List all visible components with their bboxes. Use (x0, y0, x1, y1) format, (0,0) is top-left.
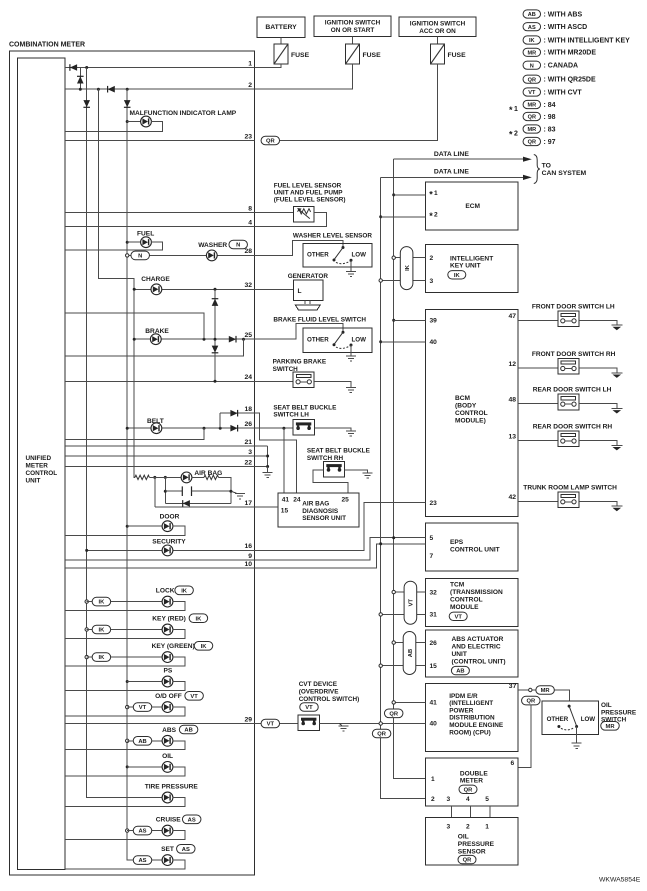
svg-text:N: N (138, 254, 142, 260)
svg-text:IGNITION SWITCH: IGNITION SWITCH (410, 21, 466, 28)
svg-text:AB: AB (456, 669, 464, 675)
generator box (294, 280, 324, 301)
connector circle bus2/IK3 (379, 279, 382, 282)
wire meter pin 21 (65, 445, 268, 447)
brake fluid switch dashed throw (336, 346, 351, 349)
svg-text:48: 48 (509, 396, 517, 403)
svg-text:32: 32 (430, 589, 438, 596)
svg-text:METER: METER (26, 463, 49, 470)
ground CVT device line (339, 726, 349, 731)
option oval QR on line 23 (261, 136, 280, 145)
wire pin 28 to washer sensor (254, 240, 343, 255)
wire meter pin 16 (87, 549, 255, 551)
brace TO CAN SYSTEM (534, 155, 540, 184)
wire bus2 to TCM pin 31 (381, 613, 426, 615)
svg-text:: WITH ABS: : WITH ABS (544, 11, 583, 18)
option oval VT inside TCM (449, 612, 467, 620)
CRUISE indicator lamp (162, 825, 173, 836)
svg-text:IK: IK (98, 600, 105, 606)
wire KEY (RED) return (65, 630, 185, 639)
svg-text:WASHER: WASHER (198, 242, 227, 249)
diode D11 air bag (183, 500, 190, 507)
svg-text:: 97: : 97 (544, 139, 556, 146)
wire ground tap stem (339, 724, 342, 726)
node line24/diodechain (214, 380, 217, 383)
wire pin 26 to seat belt LH (254, 427, 293, 429)
svg-text:REAR DOOR SWITCH LH: REAR DOOR SWITCH LH (533, 387, 612, 394)
svg-text:2: 2 (514, 131, 518, 138)
REAR DOOR SWITCH LH (558, 394, 579, 410)
svg-text:AB: AB (138, 739, 146, 745)
wire bus battery x86.7 (87, 68, 163, 798)
node SECURITY feed (85, 549, 88, 552)
svg-text:1: 1 (248, 60, 252, 67)
svg-text:LOCK: LOCK (156, 588, 175, 595)
option oval VT on O/D OFF feed (133, 703, 152, 712)
svg-text:*: * (509, 105, 513, 115)
wire meter pin 17 (155, 506, 255, 508)
ground for pins 21/3/22 (263, 473, 273, 478)
svg-text:(INTELLIGENT: (INTELLIGENT (449, 700, 493, 707)
svg-text:OTHER: OTHER (307, 337, 329, 344)
svg-text:AB: AB (528, 12, 536, 18)
wire pin25 branch return (65, 339, 244, 356)
wire KEY (RED) feed (87, 629, 163, 631)
svg-text:MR: MR (527, 127, 536, 133)
option oval VT beside O/D OFF label (185, 692, 204, 701)
wire BCM pin 47 to FRONT DOOR SWITCH LH (518, 319, 558, 321)
wire ground stem pins 21-3-22 (267, 467, 269, 473)
seat belt warning lamp (151, 423, 162, 434)
intelligent key unit box (426, 245, 518, 293)
svg-text:QR: QR (526, 699, 536, 705)
wire PS feed (127, 681, 162, 683)
option oval IK on LOCK feed (92, 597, 111, 606)
svg-text:AS: AS (138, 829, 146, 835)
CVT overdrive control switch (298, 715, 319, 731)
svg-text:17: 17 (244, 500, 252, 507)
svg-text:IPDM E/R: IPDM E/R (449, 693, 478, 700)
wire meter pin 10 (65, 567, 254, 569)
ignition switch ACC/ON box (399, 17, 476, 37)
connector circle LOCK feed (85, 600, 88, 603)
svg-text:OIL: OIL (601, 702, 612, 709)
svg-text:*: * (509, 130, 513, 140)
wire O/D OFF return (65, 707, 185, 716)
connector circle bus1/ABS26 (392, 641, 395, 644)
svg-text:PRESSURE: PRESSURE (458, 841, 495, 848)
legend code oval AS row 2 (523, 23, 541, 31)
svg-text:AS: AS (138, 858, 146, 864)
svg-text:IK: IK (98, 655, 105, 661)
svg-text:42: 42 (509, 494, 517, 501)
capacitor C1 (182, 486, 191, 496)
node PS feed (126, 680, 129, 683)
washer switch contact LOW (350, 259, 353, 262)
svg-text:VT: VT (139, 705, 147, 711)
svg-text:DIAGNOSIS: DIAGNOSIS (302, 508, 339, 515)
svg-text:CHARGE: CHARGE (141, 276, 170, 283)
wire ignition ON/START to fuse (352, 37, 354, 45)
svg-text:: 98: : 98 (544, 114, 556, 121)
svg-text:1: 1 (431, 776, 435, 783)
svg-text:25: 25 (342, 497, 350, 504)
ABS actuator box (426, 630, 518, 677)
svg-text:21: 21 (244, 439, 252, 446)
svg-text:24: 24 (293, 497, 301, 504)
svg-text:MR: MR (527, 103, 536, 109)
wire CVT switch to ground tap (319, 723, 380, 725)
svg-text:VT: VT (528, 90, 536, 96)
svg-text:SENSOR UNIT: SENSOR UNIT (302, 515, 346, 522)
ignition switch ON/START box (314, 16, 391, 37)
wire TRUNK ROOM LAMP SWITCH to ground (579, 501, 617, 506)
svg-text:AS: AS (182, 847, 190, 853)
svg-text:2: 2 (466, 824, 470, 831)
svg-text:41: 41 (430, 700, 438, 707)
wire FRONT DOOR SWITCH RH to ground (579, 368, 617, 373)
svg-text:QR: QR (528, 115, 536, 121)
option oval VT above CVT switch (300, 703, 319, 712)
oil pressure switch lever (569, 706, 576, 725)
svg-text:METER: METER (460, 778, 483, 785)
ABS indicator lamp (162, 735, 173, 746)
svg-text:1: 1 (514, 106, 518, 113)
node bus1/ECM 1 (392, 193, 395, 196)
brake fluid switch pivot (342, 331, 345, 334)
option oval IK beside LOCK label (175, 586, 194, 595)
svg-text:15: 15 (430, 663, 438, 670)
svg-text:VT: VT (190, 694, 198, 700)
oil pressure switch box (542, 701, 599, 735)
wire diode chain vertical x215 (214, 289, 216, 381)
oil pressure switch pivot (568, 705, 571, 708)
ground seat belt RH (363, 473, 373, 478)
oil pressure switch contact LOW (575, 725, 578, 728)
svg-text:32: 32 (244, 282, 252, 289)
svg-text:: CANADA: : CANADA (544, 63, 579, 70)
door warning lamp (162, 521, 173, 532)
diode D6 upward (212, 299, 219, 306)
connector circle IPDM37 (529, 688, 532, 691)
svg-text:UNIT: UNIT (26, 478, 41, 485)
fuse F3 (ignition acc) (431, 44, 445, 64)
FRONT DOOR SWITCH RH (558, 359, 579, 375)
svg-text:22: 22 (244, 459, 252, 466)
svg-text:25: 25 (244, 332, 252, 339)
option oval MR under oil pressure switch label (601, 722, 620, 731)
option oval N on line 28 (131, 251, 150, 260)
legend code oval IK row 3 (523, 36, 541, 44)
fuel level sensor (variable resistor) (294, 206, 314, 222)
svg-text:OTHER: OTHER (547, 716, 569, 723)
resistor R2 air bag (204, 475, 218, 479)
svg-text:PS: PS (164, 668, 173, 675)
ground air bag capacitor (235, 494, 245, 499)
wire seat belt RH to airbag pin 25 (313, 470, 348, 493)
wire KEY (GREEN) return (65, 657, 185, 666)
svg-text:FRONT DOOR SWITCH LH: FRONT DOOR SWITCH LH (532, 303, 615, 310)
svg-text:LOW: LOW (352, 337, 367, 344)
washer level sensor box (303, 243, 372, 267)
wire seat belt LH to ground (314, 428, 351, 430)
wire CRUISE feed (127, 830, 162, 832)
wire meter pin 29 (65, 723, 254, 725)
option oval IK inside key unit (448, 271, 466, 279)
ground REAR DOOR SWITCH RH (611, 445, 622, 450)
wire BCM pin 23 to meter pin 16 (254, 503, 425, 551)
connector capsule IK (400, 247, 413, 290)
wire FUEL return (65, 242, 163, 250)
svg-text:FUSE: FUSE (363, 52, 382, 59)
svg-text:3: 3 (248, 449, 252, 456)
wire KEY (GREEN) feed (87, 656, 163, 658)
legend code oval MR row 10 (523, 125, 541, 133)
svg-text:AS: AS (528, 25, 536, 31)
svg-text:TIRE PRESSURE: TIRE PRESSURE (145, 784, 199, 791)
svg-text:QR: QR (389, 711, 399, 717)
wire washer LOW to ground (350, 260, 352, 271)
wire pin 4 to fuel sensor return (254, 213, 326, 227)
svg-text:WKWA5854E: WKWA5854E (599, 877, 641, 884)
svg-text:4: 4 (248, 219, 252, 226)
svg-text:QR: QR (464, 787, 474, 793)
wire meter pin 32 (134, 288, 254, 290)
svg-text:FUSE: FUSE (448, 52, 467, 59)
svg-text:SECURITY: SECURITY (152, 539, 186, 546)
connector circle bus1/IPDM41 (392, 701, 395, 704)
node cap/right vert (229, 490, 232, 493)
wire O/D OFF feed (127, 706, 162, 708)
wire MIL return (65, 122, 163, 132)
node BRAKE feed (133, 338, 136, 341)
node bus1/BCM39 (392, 319, 395, 322)
washer switch lever (334, 248, 343, 260)
FRONT DOOR SWITCH LH (558, 311, 579, 327)
diode D3 downward on bus 86.7 (83, 100, 90, 107)
fuse F2 (ignition on/start) (346, 44, 360, 64)
PS indicator lamp (162, 676, 173, 687)
svg-text:5: 5 (485, 796, 489, 803)
ground FRONT DOOR SWITCH LH (611, 325, 622, 330)
malfunction indicator lamp (141, 116, 152, 127)
svg-text:INTELLIGENT: INTELLIGENT (450, 255, 493, 262)
svg-text:DOUBLE: DOUBLE (460, 770, 488, 777)
svg-text:EPS: EPS (450, 539, 464, 546)
legend code oval VT row 7 (523, 88, 541, 96)
node OIL feed (126, 765, 129, 768)
option oval IK beside KEY (GREEN) label (194, 642, 213, 651)
node brake/diodechain (214, 338, 217, 341)
brake fluid level switch box (303, 328, 372, 352)
wire fuse F1 to meter pin 1 (254, 64, 281, 68)
connector circle KEY (GREEN) feed (85, 655, 88, 658)
svg-text:CONTROL: CONTROL (26, 470, 58, 477)
node line1/bus86 (85, 66, 88, 69)
generator frame base (295, 301, 320, 311)
O/D OFF indicator lamp (162, 702, 173, 713)
svg-text:FUEL: FUEL (137, 230, 154, 237)
svg-text:IK: IK (454, 273, 461, 279)
seat belt buckle switch RH (323, 461, 344, 477)
wire CAN bus 1 (394, 159, 426, 778)
wire BCM pin 42 to TRUNK ROOM LAMP SWITCH (518, 500, 558, 502)
svg-text:: 84: : 84 (544, 102, 556, 109)
node DOOR feed (126, 525, 129, 528)
svg-text:QR: QR (377, 732, 387, 738)
option oval QR inside oil pressure sensor (458, 855, 476, 863)
option oval MR on pin 37 line (536, 686, 555, 695)
svg-text:47: 47 (509, 313, 517, 320)
wire fuse F2 to meter pin 2 (254, 64, 352, 89)
option oval N beside WASHER (229, 240, 248, 249)
option oval QR on bus2 (372, 729, 391, 738)
node belt/branch220 (219, 427, 222, 430)
legend code oval QR row 11 (523, 137, 541, 145)
svg-text:*: * (429, 211, 433, 221)
BCM box (426, 309, 518, 516)
fuse F1 (battery) (274, 44, 288, 64)
connector circle bus2/IPDM40 (379, 722, 382, 725)
washer switch contact OTHER (333, 259, 336, 262)
svg-text:31: 31 (430, 612, 438, 619)
wire meter pin 18 (220, 412, 254, 414)
wire fuse F3 to meter pin 23 (280, 64, 438, 141)
svg-text:: WITH ASCD: : WITH ASCD (544, 24, 588, 31)
wire meter pin 4 (65, 226, 254, 228)
wire FRONT DOOR SWITCH LH to ground (579, 320, 617, 325)
wire double meter pins 3/4/5 down (451, 806, 490, 818)
svg-text:1: 1 (434, 190, 438, 197)
wire airbag lamp to resistor R2 (192, 476, 204, 478)
diode D1 on line 1 (70, 64, 77, 71)
wire CAN bus 2 (381, 177, 426, 798)
svg-text:OIL: OIL (458, 833, 469, 840)
wire OIL feed (127, 766, 162, 768)
svg-text:PRESSURE: PRESSURE (601, 709, 637, 716)
wire IPDM pin 37 (518, 690, 570, 701)
wire pin 25 to brake fluid switch (254, 323, 343, 339)
wire BCM pin 13 to REAR DOOR SWITCH RH (518, 440, 558, 442)
battery supply box (257, 17, 305, 38)
svg-text:ABS: ABS (162, 727, 177, 734)
svg-text:(TRANSMISSION: (TRANSMISSION (450, 589, 503, 596)
svg-text:9: 9 (248, 553, 252, 560)
wire branch to pin 18 (219, 413, 221, 428)
ground TRUNK ROOM LAMP SWITCH (611, 506, 622, 511)
svg-text:12: 12 (509, 361, 517, 368)
wire ABS return (65, 741, 185, 750)
wire ABS feed (127, 740, 162, 742)
wire bus1 to IK pin 2 (394, 257, 426, 259)
wire REAR DOOR SWITCH RH to ground (579, 441, 617, 446)
wire QR oval to double meter pin 6 (518, 705, 531, 768)
node pin22/ground bus (266, 465, 269, 468)
svg-text:QR: QR (463, 858, 473, 864)
ground washer level sensor (346, 272, 356, 277)
connector circle on N line (126, 254, 129, 257)
svg-text:: 83: : 83 (544, 126, 556, 133)
svg-text:ACC OR ON: ACC OR ON (419, 28, 456, 35)
wire airbag row right end (219, 477, 231, 503)
wire capacitor row right (192, 490, 231, 492)
connector circle ABS feed (126, 739, 129, 742)
wire meter pin 9 to EPS pin 5 (254, 538, 425, 560)
wire SET return (65, 860, 185, 869)
wire bus1 to TCM pin 32 (394, 591, 426, 593)
arrowhead DATA LINE 1 (523, 157, 532, 162)
svg-text:41: 41 (282, 497, 290, 504)
svg-text:3: 3 (447, 796, 451, 803)
SET indicator lamp (162, 855, 173, 866)
option oval IK on KEY (RED) feed (92, 625, 111, 634)
svg-text:(FUEL LEVEL SENSOR): (FUEL LEVEL SENSOR) (274, 197, 346, 204)
svg-text:37: 37 (509, 683, 517, 690)
svg-text:DATA LINE: DATA LINE (434, 169, 469, 176)
node CHARGE feed (133, 288, 136, 291)
wire brake fluid LOW to ground (350, 345, 352, 356)
option oval AS on SET feed (133, 856, 152, 865)
svg-text:23: 23 (244, 133, 252, 140)
svg-text:*: * (429, 190, 433, 200)
svg-text:TO: TO (542, 163, 551, 170)
option oval AS beside SET label (177, 845, 196, 854)
svg-text:: WITH INTELLIGENT KEY: : WITH INTELLIGENT KEY (544, 37, 631, 44)
option oval AB inside ABS unit (451, 666, 469, 674)
REAR DOOR SWITCH RH (558, 431, 579, 447)
wire DATA LINE 2 (CAN-L) (381, 176, 524, 178)
wire seat belt RH to ground (345, 470, 368, 473)
connector circle bus1/IK2 (392, 256, 395, 259)
wire capacitor row left (165, 490, 182, 492)
svg-text:ROOM) (CPU): ROOM) (CPU) (449, 729, 491, 736)
option oval AB beside ABS label (179, 725, 198, 734)
svg-text:UNIFIED: UNIFIED (26, 455, 52, 462)
svg-text:VT: VT (454, 614, 462, 620)
connector circle bus2/ABS15 (379, 664, 382, 667)
wire SET feed (127, 859, 162, 861)
diode D10 to pin 26 (230, 425, 237, 432)
option oval AB on ABS feed (133, 737, 152, 746)
svg-text:DISTRIBUTION: DISTRIBUTION (449, 715, 495, 722)
wire pin21 to ground bus (267, 446, 269, 467)
node MIL feed (126, 120, 129, 123)
wire bus x98.4 to x134.2 (98, 89, 134, 477)
svg-text:MODULE: MODULE (450, 604, 479, 611)
wire airbag ground stem (231, 491, 237, 493)
wire LOCK return (65, 602, 185, 611)
wire meter pin 23 (65, 140, 254, 142)
svg-text:KEY UNIT: KEY UNIT (450, 263, 481, 270)
wire airbag row (149, 476, 181, 478)
svg-text:6: 6 (511, 760, 515, 767)
svg-text:KEY (RED): KEY (RED) (152, 616, 186, 623)
air bag diagnosis sensor unit box (278, 493, 359, 527)
combination meter outer box (10, 51, 255, 875)
wire OIL return (65, 767, 185, 776)
node charge/diode chain (214, 288, 217, 291)
wire diode row airbag (165, 502, 231, 504)
option oval VT on line 29 (261, 719, 280, 728)
node D2/line2 (79, 88, 82, 91)
svg-text:WASHER LEVEL SENSOR: WASHER LEVEL SENSOR (293, 233, 372, 240)
option oval QR on bus1 (384, 709, 403, 718)
node seat belt LH / airbag 41 (282, 427, 285, 430)
brake fluid switch contact LOW (350, 344, 353, 347)
svg-text:26: 26 (430, 640, 438, 647)
svg-text:KEY (GREEN): KEY (GREEN) (152, 643, 195, 650)
ground FRONT DOOR SWITCH RH (611, 373, 622, 378)
